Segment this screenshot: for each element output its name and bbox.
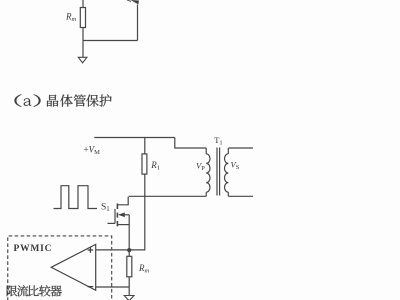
wire step to primary top — [175, 138, 206, 149]
caption current-limit comparator — [7, 285, 62, 296]
PWMIC dashed box — [8, 236, 112, 300]
plus sign — [88, 247, 94, 253]
comparator (op-amp) — [51, 244, 95, 290]
resistor R1 — [142, 154, 147, 174]
transformer primary winding — [206, 148, 210, 196]
junction node — [127, 248, 131, 252]
resistor Rm (sense) — [127, 256, 132, 277]
wire junction to Rm — [128, 250, 130, 256]
wire — [82, 28, 84, 58]
transformer core — [217, 148, 220, 196]
resistor Rm (top circuit) — [80, 8, 85, 28]
ground (top circuit) — [78, 57, 87, 63]
wire secondary top — [228, 147, 253, 149]
minus sign — [88, 286, 94, 288]
wire secondary bottom — [228, 195, 253, 197]
ground (bottom) — [124, 296, 134, 300]
MOSFET S1 — [108, 197, 130, 250]
wire R1 bottom to junction — [129, 174, 145, 250]
svg-text:PWMIC: PWMIC — [14, 244, 53, 254]
wire +VM rail — [94, 137, 175, 139]
wire — [137, 5, 139, 41]
wire comparator plus input — [96, 249, 130, 251]
wire Rm bottom — [128, 277, 130, 296]
transformer secondary winding — [225, 148, 229, 196]
wire comparator minus input — [96, 286, 130, 288]
gate drive square wave — [54, 186, 98, 209]
wire — [82, 0, 84, 8]
wire primary bottom to drain — [129, 195, 207, 197]
transistor emitter arrow (cut off at top) — [131, 0, 140, 4]
wire R1 top — [144, 138, 146, 154]
wire — [83, 40, 138, 42]
caption (a) transistor protection — [15, 94, 112, 106]
